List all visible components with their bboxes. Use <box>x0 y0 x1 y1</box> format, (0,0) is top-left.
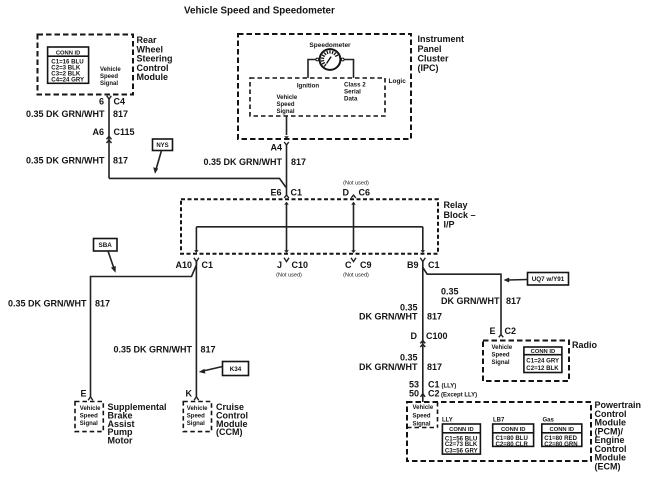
svg-text:Vehicle: Vehicle <box>413 405 434 411</box>
svg-text:UQ7 w/Y91: UQ7 w/Y91 <box>532 276 565 283</box>
module Cruise Control Module box <box>183 402 211 432</box>
svg-text:K: K <box>186 388 193 398</box>
svg-text:C: C <box>345 260 352 270</box>
svg-text:Speed: Speed <box>187 413 205 419</box>
svg-text:Signal: Signal <box>492 360 510 366</box>
svg-text:Logic: Logic <box>389 78 407 85</box>
module Rear Wheel Steering Control Module box <box>38 35 134 95</box>
arrow from UQ7 to wire <box>508 279 528 282</box>
speedometer gauge <box>316 49 344 70</box>
logic box inside IPC <box>250 78 385 116</box>
svg-text:Motor: Motor <box>108 436 133 446</box>
svg-text:Signal: Signal <box>80 421 98 427</box>
wire speedometer right terminal to Class 2 Serial Data <box>344 60 353 79</box>
arrow from NYS to wire <box>156 151 162 170</box>
svg-text:C2: C2 <box>505 326 517 336</box>
label Vehicle Speed Signal box (PCM) <box>437 402 439 428</box>
CONN ID table (Gas) <box>542 424 582 448</box>
svg-text:Speed: Speed <box>413 413 431 419</box>
CONN ID table (LLY) <box>442 424 480 454</box>
svg-text:CONN ID: CONN ID <box>531 349 555 355</box>
svg-text:0.35 DK GRN/WHT: 0.35 DK GRN/WHT <box>113 345 192 355</box>
svg-text:(ECM): (ECM) <box>595 461 621 471</box>
wire B9 vertical inside relay block <box>422 227 424 252</box>
svg-text:Panel: Panel <box>418 44 442 54</box>
svg-text:50: 50 <box>409 389 419 399</box>
wire 817 from Rear Wheel module down <box>108 99 110 178</box>
connector A6 / C115 inline <box>92 127 134 143</box>
svg-text:C1: C1 <box>202 260 214 270</box>
svg-text:A10: A10 <box>175 260 192 270</box>
svg-text:(LLY): (LLY) <box>442 384 457 390</box>
wire arrow Vehicle Speed Signal to IPC edge <box>286 116 288 135</box>
svg-text:CONN ID: CONN ID <box>449 427 473 433</box>
svg-text:D: D <box>343 188 350 198</box>
wire E6 vertical inside relay block <box>286 203 288 253</box>
wire A10 vertical inside relay block <box>195 227 197 252</box>
svg-text:SBA: SBA <box>99 242 113 249</box>
svg-text:DK GRN/WHT: DK GRN/WHT <box>359 362 418 372</box>
connector J / C10 at relay bottom (Not used) <box>276 258 308 279</box>
connector 53 / C1 (LLY) <box>409 380 456 390</box>
svg-text:Speed: Speed <box>80 413 98 419</box>
svg-text:A4: A4 <box>270 143 282 153</box>
svg-text:Ignition: Ignition <box>297 82 320 89</box>
svg-text:Vehicle: Vehicle <box>100 67 121 73</box>
svg-text:Speed: Speed <box>100 74 118 80</box>
svg-text:Signal: Signal <box>187 421 205 427</box>
connector B9 / C1 at relay bottom <box>407 258 440 270</box>
wire D vertical inside relay block <box>353 203 355 253</box>
svg-text:Vehicle: Vehicle <box>80 406 101 412</box>
svg-text:(Not used): (Not used) <box>276 273 302 279</box>
svg-text:Gas: Gas <box>543 418 555 424</box>
svg-text:(Not used): (Not used) <box>343 181 369 187</box>
svg-text:K34: K34 <box>230 366 242 373</box>
svg-text:817: 817 <box>291 157 306 167</box>
svg-text:Speed: Speed <box>277 102 295 108</box>
svg-text:C2=80 GRN: C2=80 GRN <box>544 441 577 448</box>
option label K34 <box>223 362 249 376</box>
connector 50 / C2 (Except LLY) <box>409 389 477 399</box>
svg-text:Signal: Signal <box>277 109 295 115</box>
module Instrument Panel Cluster box <box>238 34 411 139</box>
svg-text:C1=24 GRY: C1=24 GRY <box>526 358 559 365</box>
svg-text:C4: C4 <box>114 97 126 107</box>
svg-text:Speedometer: Speedometer <box>309 42 351 49</box>
svg-text:A6: A6 <box>92 127 104 137</box>
connector A10 / C1 at relay bottom <box>175 258 213 270</box>
svg-text:(CCM): (CCM) <box>216 427 243 437</box>
svg-text:Module: Module <box>137 72 169 82</box>
svg-text:E: E <box>80 388 86 398</box>
svg-text:817: 817 <box>201 345 216 355</box>
svg-text:Vehicle: Vehicle <box>277 95 298 101</box>
connector E6 / C1 at relay top <box>270 188 302 198</box>
wire branch from B9 wire to Radio <box>423 268 501 335</box>
module Radio box <box>483 341 569 382</box>
connector pin 6 / C4 <box>99 96 125 107</box>
svg-text:C2: C2 <box>428 389 440 399</box>
svg-text:C4=24 GRY: C4=24 GRY <box>51 77 84 84</box>
svg-text:CONN ID: CONN ID <box>56 50 80 56</box>
svg-text:C10: C10 <box>292 260 309 270</box>
svg-text:CONN ID: CONN ID <box>550 427 574 433</box>
svg-text:0.35: 0.35 <box>400 353 418 363</box>
svg-text:C100: C100 <box>426 331 448 341</box>
svg-text:Vehicle: Vehicle <box>492 345 513 351</box>
option label SBA <box>94 239 118 252</box>
svg-text:Data: Data <box>344 95 358 102</box>
svg-text:(IPC): (IPC) <box>418 63 439 73</box>
option label NYS <box>153 139 173 151</box>
wire speedometer left terminal to Ignition <box>308 60 316 79</box>
svg-text:C1: C1 <box>291 188 303 198</box>
svg-text:0.35 DK GRN/WHT: 0.35 DK GRN/WHT <box>26 156 105 166</box>
svg-text:Serial: Serial <box>344 88 361 95</box>
svg-text:(Except LLY): (Except LLY) <box>441 393 477 399</box>
svg-text:D: D <box>411 331 418 341</box>
svg-text:817: 817 <box>506 296 521 306</box>
svg-text:817: 817 <box>113 109 128 119</box>
svg-text:Speed: Speed <box>492 353 510 359</box>
option label UQ7 w/Y91 <box>528 273 569 286</box>
module Supplemental Brake Assist Pump Motor box <box>75 402 103 432</box>
svg-text:Cluster: Cluster <box>418 53 450 63</box>
CONN ID table (Radio) <box>524 347 562 373</box>
svg-text:B9: B9 <box>407 260 419 270</box>
connector E (Supplemental Brake Assist Pump Motor) <box>80 388 92 400</box>
svg-text:Vehicle: Vehicle <box>187 406 208 412</box>
svg-text:C3=56 GRY: C3=56 GRY <box>445 447 478 454</box>
connector A4 <box>270 142 288 153</box>
connector D / C100 inline <box>411 331 448 347</box>
connector K (Cruise Control Module) <box>186 388 199 400</box>
svg-text:C115: C115 <box>114 127 135 137</box>
module Relay Block I/P box <box>181 199 438 254</box>
svg-text:CONN ID: CONN ID <box>501 427 525 433</box>
wire bus inside relay block <box>196 226 422 228</box>
svg-text:E: E <box>489 326 495 336</box>
wire from A10 down to K (CCM) <box>195 261 197 396</box>
svg-text:Relay: Relay <box>444 200 468 210</box>
connector D / C6 at relay top (Not used) <box>343 181 371 198</box>
svg-text:DK GRN/WHT: DK GRN/WHT <box>359 312 418 322</box>
svg-text:J: J <box>277 260 282 270</box>
svg-text:(Not used): (Not used) <box>343 273 369 279</box>
svg-text:0.35 DK GRN/WHT: 0.35 DK GRN/WHT <box>203 157 282 167</box>
svg-text:NYS: NYS <box>156 143 168 149</box>
svg-text:E6: E6 <box>270 188 281 198</box>
svg-text:C2=80 CLR: C2=80 CLR <box>496 441 529 448</box>
svg-text:C9: C9 <box>360 260 372 270</box>
svg-text:Class 2: Class 2 <box>344 81 366 88</box>
svg-text:6: 6 <box>99 97 104 107</box>
svg-text:LB7: LB7 <box>493 418 505 424</box>
wire from A10 to left branch <box>91 261 197 396</box>
svg-text:817: 817 <box>113 156 128 166</box>
wire 817 from IPC to relay block <box>286 145 288 195</box>
wire from B9 down to PCM <box>422 261 424 402</box>
svg-text:Instrument: Instrument <box>418 34 465 44</box>
connector C / C9 at relay bottom (Not used) <box>343 258 371 279</box>
svg-text:817: 817 <box>427 312 442 322</box>
svg-text:817: 817 <box>95 299 110 309</box>
svg-text:Block –: Block – <box>444 210 476 220</box>
svg-text:LLY: LLY <box>442 418 453 424</box>
svg-text:Radio: Radio <box>572 340 598 350</box>
CONN ID table (Rear Wheel Steering Control Module) <box>48 47 89 84</box>
module Powertrain Control Module box <box>407 402 591 461</box>
arrow from K34 to wire <box>203 367 223 372</box>
svg-text:C1: C1 <box>428 260 440 270</box>
svg-text:0.35: 0.35 <box>441 287 459 297</box>
svg-text:Vehicle Speed and Speedometer: Vehicle Speed and Speedometer <box>184 5 335 16</box>
arrow from SBA to wire <box>108 251 114 269</box>
svg-text:C2=12 BLK: C2=12 BLK <box>526 365 559 372</box>
svg-text:I/P: I/P <box>444 220 455 230</box>
CONN ID table (LB7) <box>493 424 534 448</box>
svg-text:Signal: Signal <box>413 422 431 428</box>
svg-text:0.35 DK GRN/WHT: 0.35 DK GRN/WHT <box>8 299 87 309</box>
svg-text:0.35 DK GRN/WHT: 0.35 DK GRN/WHT <box>26 109 105 119</box>
svg-text:817: 817 <box>427 362 442 372</box>
svg-text:Signal: Signal <box>100 81 118 87</box>
wire horizontal from Rear Wheel branch to E6 vertical <box>109 178 286 187</box>
connector E / C2 (Radio) <box>489 326 516 337</box>
svg-text:C6: C6 <box>359 188 371 198</box>
svg-text:DK GRN/WHT: DK GRN/WHT <box>441 296 500 306</box>
